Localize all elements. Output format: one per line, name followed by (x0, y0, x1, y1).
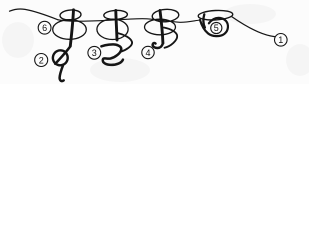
loop L2 vertical bar (116, 11, 117, 41)
loop L1 lower lobe (53, 20, 87, 40)
wire: main rope line left segment (10, 9, 59, 20)
wire: rope through clusters (58, 19, 200, 23)
knot K1 loop ring (51, 48, 70, 67)
svg-text:3: 3 (92, 48, 97, 58)
knot K4 curl around label 5 (200, 18, 228, 36)
loop L3 upper ellipse (152, 8, 179, 22)
loop L3 vertical bar (160, 11, 163, 44)
label 5 circle (211, 22, 222, 33)
loop L1 vertical bar (70, 10, 73, 46)
knot K1 crossing strand (55, 46, 70, 64)
knot K2 right bight arc (118, 33, 133, 52)
svg-text:2: 2 (39, 55, 44, 65)
label 3 circle (88, 46, 101, 59)
knot K3 hook tip (153, 43, 163, 48)
label 6 circle (38, 21, 51, 34)
svg-text:6: 6 (42, 23, 47, 33)
loop L2 upper ellipse (104, 10, 128, 20)
loop L2 lower lobe (97, 19, 128, 39)
loop L1 upper ellipse (60, 9, 82, 20)
loop L4 upper ellipse (198, 10, 233, 21)
knot K4 left pinch crossing (203, 14, 204, 27)
knot K2 squiggle loop (101, 44, 123, 65)
loop L3 lower lobe (145, 19, 176, 35)
knot K1 tail (60, 65, 64, 81)
label 2 circle (35, 54, 48, 67)
svg-text:4: 4 (145, 48, 150, 58)
label 4 circle (142, 46, 154, 58)
wire: rope tail right segment (232, 17, 275, 37)
svg-text:5: 5 (214, 23, 219, 33)
svg-text:1: 1 (278, 35, 283, 45)
label 1 circle (275, 34, 288, 47)
knot K3 right bight arc (164, 28, 177, 48)
